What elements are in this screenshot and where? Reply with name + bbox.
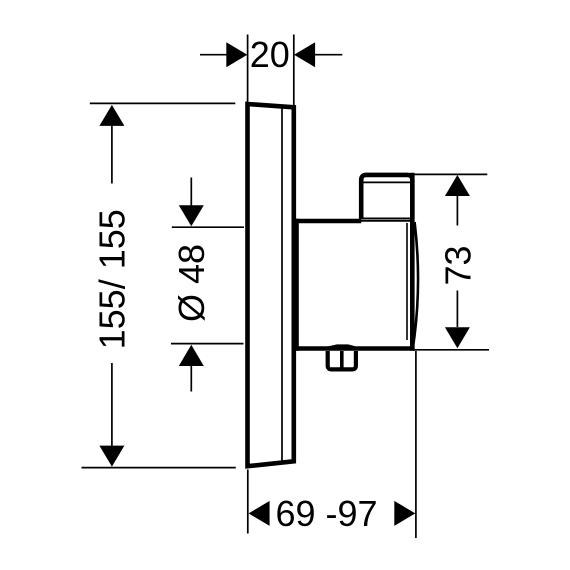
- svg-text:73: 73: [437, 245, 478, 285]
- valve body: [294, 173, 418, 351]
- svg-text:155/ 155: 155/ 155: [91, 209, 132, 349]
- control stem cylinder: [361, 175, 412, 219]
- escutcheon plate (side view): [248, 104, 294, 466]
- dimension 73 (right): [413, 174, 489, 349]
- dimension diameter 48: [171, 178, 244, 392]
- dimension 69 -97 (bottom): [248, 351, 416, 538]
- bottom outlet tab: [328, 346, 356, 370]
- dimension 155/ 155 (left): [82, 103, 236, 467]
- rounded right face arc: [413, 222, 418, 345]
- svg-text:20: 20: [250, 34, 290, 75]
- inner edge line near right face: [406, 223, 408, 340]
- svg-text:Ø 48: Ø 48: [171, 244, 212, 322]
- dimension 20 (top): [200, 34, 342, 108]
- svg-text:69 -97: 69 -97: [275, 493, 377, 534]
